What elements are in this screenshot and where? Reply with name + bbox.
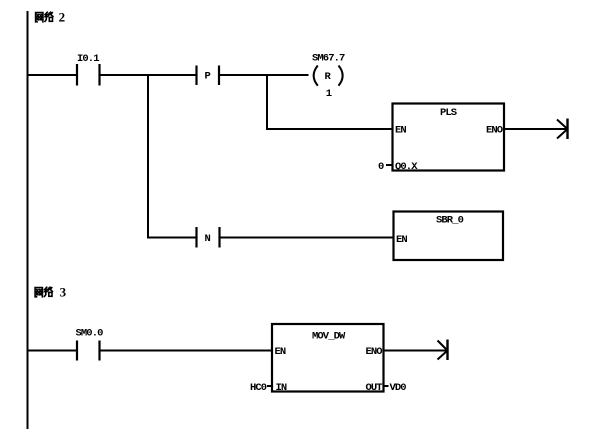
svg-text:PLS: PLS	[440, 107, 457, 119]
wire: rail to contact SM0.0	[27, 350, 77, 352]
wire: branch junction drop to N rung	[147, 74, 149, 239]
contact N (negative edge)	[197, 227, 220, 248]
wire: rail to contact I0.1	[27, 74, 76, 76]
contact P (positive edge)	[197, 66, 220, 86]
coil R SM67.7 (reset coil)	[312, 53, 345, 101]
pin OUT with operand VD0	[366, 382, 407, 394]
svg-text:MOV_DW: MOV_DW	[312, 331, 346, 343]
svg-text:VD0: VD0	[390, 382, 407, 394]
wire: I0.1 to contact P	[100, 74, 196, 76]
wire: PLS ENO output	[504, 128, 567, 130]
wire: branch drop to PLS EN	[267, 75, 392, 129]
function block PLS	[393, 104, 505, 171]
svg-text:P: P	[205, 71, 211, 83]
function block MOV_DW	[272, 324, 384, 392]
svg-text:OUT: OUT	[366, 382, 383, 394]
svg-text:HC0: HC0	[250, 382, 267, 394]
svg-text:EN: EN	[275, 346, 286, 358]
function block SBR_0	[394, 212, 504, 261]
svg-text:EN: EN	[396, 234, 407, 246]
contact SM0.0	[76, 328, 104, 361]
svg-text:ENO: ENO	[366, 346, 383, 358]
svg-text:SM67.7: SM67.7	[312, 53, 345, 65]
svg-text:EN: EN	[395, 125, 406, 137]
svg-text:Q0.X: Q0.X	[395, 161, 418, 173]
svg-text:0: 0	[378, 161, 384, 173]
svg-text:SM0.0: SM0.0	[76, 328, 104, 340]
svg-text:N: N	[205, 233, 211, 245]
wire: N to SBR_0 EN	[220, 237, 394, 239]
pin Q0.X with operand 0	[378, 161, 418, 173]
arrow: network 3 continuation	[438, 340, 448, 361]
contact I0.1	[77, 53, 100, 86]
wire: junction to contact N	[147, 237, 196, 239]
wire: SM0.0 to MOV_DW EN	[100, 350, 272, 352]
svg-text:SBR_0: SBR_0	[436, 215, 464, 227]
network 3 label (网络 3)	[35, 285, 67, 300]
svg-text:IN: IN	[276, 382, 287, 394]
left power rail	[27, 11, 29, 429]
svg-text:I0.1: I0.1	[77, 53, 99, 65]
wire: P to coil SM67.7	[219, 74, 309, 76]
wire: MOV_DW ENO output	[384, 350, 447, 352]
arrow: network 2 continuation	[557, 119, 568, 140]
svg-text:ENO: ENO	[486, 125, 503, 137]
svg-text:1: 1	[326, 88, 332, 100]
svg-text:3: 3	[60, 285, 67, 300]
svg-text:2: 2	[59, 9, 66, 24]
network 2 label (网络 2)	[36, 9, 66, 24]
pin IN with operand HC0	[250, 382, 287, 394]
